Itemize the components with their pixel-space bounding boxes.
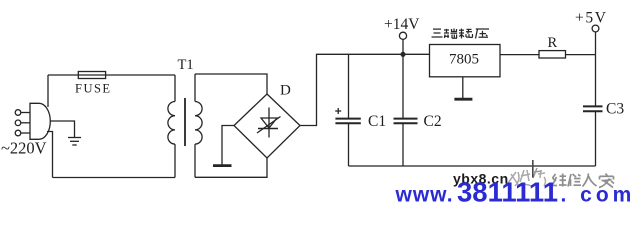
wire bridge left corner to ground <box>222 126 234 165</box>
svg-text:D: D <box>280 83 291 99</box>
svg-text:C1: C1 <box>368 113 386 130</box>
wire 7805 ground pin <box>462 77 464 99</box>
ground (near plug) <box>68 138 81 146</box>
svg-text:7805: 7805 <box>449 52 479 68</box>
watermark logo scribble <box>508 160 546 186</box>
ground (secondary, bar style) <box>213 164 232 167</box>
label 三端稳压 (three-terminal regulator, stroke approximation) <box>432 29 490 39</box>
wire bridge output to +14V rail <box>300 54 430 125</box>
wire top-left rail <box>48 74 175 76</box>
svg-text:C2: C2 <box>424 113 442 130</box>
svg-text:3811111: 3811111 <box>457 177 558 208</box>
transformer T1 core <box>184 98 186 146</box>
regulator U1 7805 box <box>430 45 501 77</box>
wire secondary top to bridge <box>195 74 267 94</box>
watermark 维修人家 (gray, stroke approximation) <box>552 174 614 188</box>
bridge rectifier D inner diode <box>257 108 281 138</box>
wire bottom-right rail <box>349 165 596 167</box>
svg-text:R: R <box>548 35 558 51</box>
fuse FUSE <box>78 72 105 79</box>
watermark www.3811111.com <box>395 177 634 208</box>
wire bottom-left rail <box>53 177 176 179</box>
bridge rectifier D diamond <box>234 94 300 158</box>
capacitor C1 (polarized) <box>335 54 361 166</box>
wire resistor to +5V node <box>566 54 596 56</box>
wire 7805 output to resistor <box>500 54 539 56</box>
wire secondary bottom to bridge <box>195 158 267 177</box>
wire plug top lead <box>47 75 49 107</box>
svg-text:FUSE: FUSE <box>75 82 112 96</box>
wire plug bottom lead <box>47 132 53 178</box>
transformer T1 primary winding <box>168 75 175 178</box>
svg-text:+14V: +14V <box>384 16 420 33</box>
plug XP (AC input) <box>15 103 50 139</box>
terminal +14V <box>399 32 406 54</box>
wire plug middle lead <box>50 121 74 137</box>
terminal +5V <box>592 25 599 54</box>
svg-text:+5V: +5V <box>575 10 608 27</box>
svg-text:. com: . com <box>561 184 634 207</box>
svg-text:~220V: ~220V <box>1 139 47 158</box>
capacitor C3 <box>583 55 603 166</box>
transformer T1 secondary winding <box>195 74 202 177</box>
svg-text:T1: T1 <box>178 57 194 73</box>
ground (7805, bar style) <box>454 98 472 101</box>
svg-text:C3: C3 <box>606 101 624 118</box>
resistor R <box>539 51 566 58</box>
capacitor C2 <box>394 54 418 166</box>
node +14V junction <box>400 52 405 57</box>
svg-text:www.: www. <box>395 184 454 207</box>
